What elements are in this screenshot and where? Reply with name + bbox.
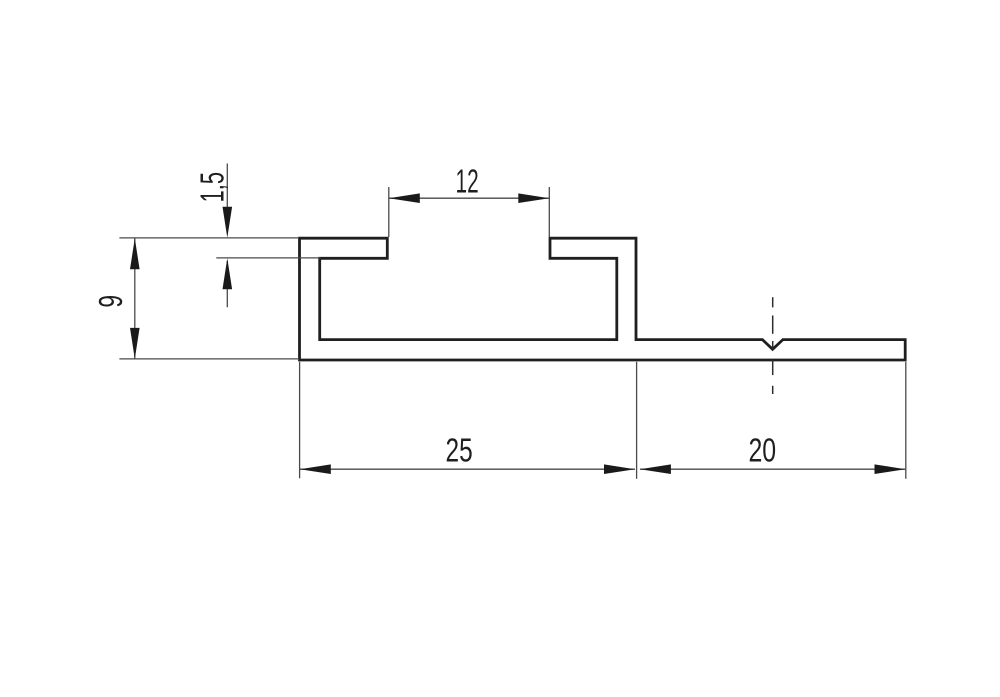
dimension 12 line [389, 197, 550, 199]
svg-text:12: 12 [456, 162, 479, 199]
dimension 9 bottom arrow [130, 328, 140, 359]
svg-text:20: 20 [748, 433, 776, 469]
extension line right (for dim 20) [905, 362, 907, 479]
dimension 20 line [640, 468, 906, 470]
extension line left (for dim 25) [299, 362, 301, 479]
dimension 1,5 upper leader [226, 164, 228, 211]
dimension 20 left arrow [640, 464, 671, 474]
extension line middle (for dims 25/20) [636, 362, 638, 479]
dimension 25 line [300, 468, 635, 470]
svg-text:9: 9 [93, 295, 130, 308]
dimension 1,5 label [194, 172, 231, 202]
dimension 9 top arrow [130, 238, 140, 269]
dimension 1,5 lower leader [226, 261, 228, 307]
extension line bottom (for dim 9) [119, 358, 299, 360]
dimension 12 label [456, 162, 479, 199]
extension line left of slot (for dim 12) [388, 187, 390, 237]
dimension 9 label [93, 295, 130, 308]
dimension 25 right arrow [604, 464, 635, 474]
dimension 25 left arrow [300, 464, 331, 474]
extension line top (for dim 9 / 1,5) [119, 237, 299, 239]
dimension 1,5 lower arrow (points up) [223, 258, 233, 289]
dimension 12 left arrow [389, 193, 420, 203]
extension line right of slot (for dim 12) [548, 187, 550, 237]
svg-text:25: 25 [446, 433, 473, 469]
bend center line (dashed) [772, 297, 774, 394]
dimension 20 label [748, 433, 776, 469]
dimension 1,5 upper arrow (points down) [223, 207, 233, 238]
dimension 25 label [446, 433, 473, 469]
dimension 20 right arrow [875, 464, 906, 474]
svg-text:1,5: 1,5 [194, 172, 231, 202]
dimension 12 right arrow [518, 193, 549, 203]
extension line lip underside (for dim 1,5) [216, 257, 320, 259]
dimension 9 line [134, 238, 136, 359]
profile outline [300, 238, 906, 360]
